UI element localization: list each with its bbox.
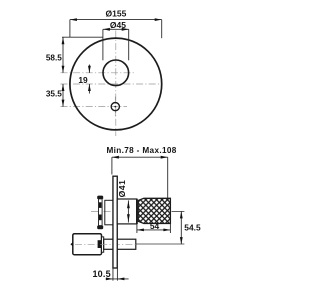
svg-text:35.5: 35.5 — [46, 89, 62, 98]
cartridge sleeve edge — [104, 200, 106, 225]
small hole center dot — [114, 106, 116, 108]
svg-text:Ø41: Ø41 — [117, 180, 127, 198]
Ø41 stem — [117, 199, 137, 224]
lower flange bar — [102, 237, 104, 252]
svg-text:Ø45: Ø45 — [110, 20, 126, 30]
knob circle Ø45 — [103, 60, 129, 86]
dimension line Min-Max — [112, 156, 168, 158]
cartridge cylinder bottom line — [105, 224, 113, 226]
stem end cap line — [136, 199, 138, 224]
svg-text:Min.78 - Max.108: Min.78 - Max.108 — [106, 146, 176, 155]
valve cartridge top cap — [97, 196, 103, 199]
flange slot upper — [99, 202, 102, 208]
dimension 54 (knob length) — [136, 224, 138, 233]
wall plate (rosette) — [113, 176, 117, 268]
dimension 19 (outside arrows) — [88, 65, 90, 73]
lower body screw head — [98, 240, 102, 248]
vertical crosshair of small hole — [114, 97, 116, 118]
svg-text:54: 54 — [150, 221, 160, 231]
horizontal centerline of knob circle — [61, 72, 135, 74]
svg-text:54.5: 54.5 — [184, 223, 201, 233]
lower axis centerline — [75, 243, 136, 245]
dimension 35.5 — [62, 84, 64, 107]
valve cartridge bottom cap — [97, 226, 103, 230]
cartridge cylinder top line — [105, 199, 113, 201]
extension line right (knob end) — [167, 157, 169, 198]
svg-text:58.5: 58.5 — [46, 54, 62, 63]
valve cartridge flange bar — [99, 199, 103, 226]
lower axis extension to 54.5 — [136, 243, 184, 245]
vertical centerline of plate — [115, 31, 117, 137]
knob axis centerline — [91, 210, 172, 212]
dimension Ø155 — [70, 20, 162, 39]
lower valve body — [73, 234, 102, 255]
dimension 58.5 — [62, 37, 64, 73]
svg-text:10.5: 10.5 — [92, 269, 110, 279]
top tangent extension line (58.5 reference) — [62, 36, 103, 38]
dimension 10.5 (plate thickness) — [112, 269, 114, 281]
horizontal centerline of plate — [61, 83, 163, 85]
dimension Ø41 — [127, 200, 129, 222]
flange slot lower — [99, 215, 102, 221]
small hole circle — [111, 103, 119, 111]
lower stem — [104, 239, 136, 249]
knurled knob — [138, 198, 170, 223]
plate circle Ø155 — [70, 38, 162, 130]
lower body nub — [70, 242, 73, 247]
horizontal line through small hole (35.5 reference) — [61, 106, 128, 108]
dimension Ø45 — [103, 29, 129, 60]
extension line left (wall face) — [111, 157, 113, 174]
dimension 54.5 (axis to axis) — [180, 211, 182, 244]
svg-text:Ø155: Ø155 — [106, 8, 127, 18]
svg-text:19: 19 — [78, 75, 88, 85]
